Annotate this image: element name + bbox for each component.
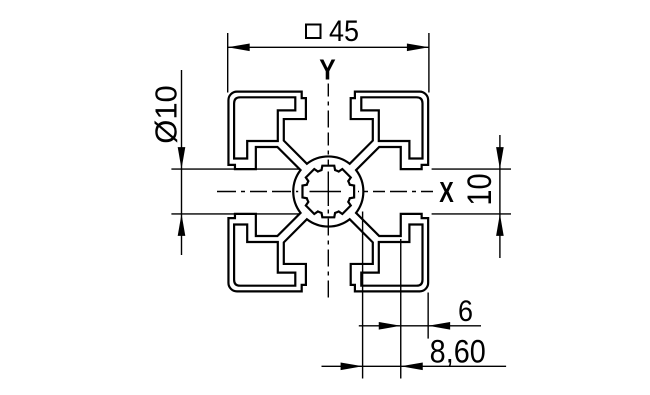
corner cavity upper-left [234, 97, 295, 158]
svg-text:Ø10: Ø10 [149, 85, 184, 144]
centerline X dashed right [358, 191, 433, 193]
centerline X dashed left [217, 191, 298, 193]
corner cavity upper-right [361, 97, 422, 158]
centerline Y dashed upper [327, 84, 329, 167]
dia10 arrow lower [178, 214, 186, 236]
svg-text:45: 45 [329, 15, 359, 49]
corner cavity lower-right [361, 225, 422, 286]
svg-text:10: 10 [460, 173, 499, 205]
dim6 extension line left [400, 239, 402, 379]
dim10 extension line upper [432, 168, 511, 170]
dim860 extension line left [362, 212, 364, 379]
dim860 dimension line [322, 365, 507, 367]
dim45 arrow right [407, 44, 429, 52]
centerline X solid center dash [310, 191, 342, 193]
dim10 arrow lower [496, 214, 504, 236]
dim6 arrow left [379, 322, 401, 330]
center bore with keyway notches [302, 166, 354, 218]
svg-text:X: X [439, 177, 454, 209]
dia10 dimension line [181, 70, 183, 255]
dim45 extension line left [227, 33, 229, 93]
svg-text:8,60: 8,60 [430, 334, 486, 370]
dim860 arrow left [341, 363, 363, 371]
svg-text:6: 6 [458, 295, 473, 329]
dim6 arrow right [428, 322, 450, 330]
dim10 dimension line [499, 135, 501, 258]
square symbol of dim45 label [306, 25, 321, 39]
dim45 arrow left [228, 44, 250, 52]
dim860 arrow right [401, 363, 423, 371]
dia10 extension line upper [171, 168, 299, 170]
centerline Y solid center dash [327, 172, 329, 207]
svg-text:Y: Y [319, 54, 335, 86]
dim45 extension line right [428, 33, 430, 93]
dia10 extension line lower [171, 213, 299, 215]
dim10 extension line lower [432, 213, 511, 215]
dim10 arrow upper [496, 147, 504, 169]
profile outer contour [228, 92, 428, 292]
corner cavity lower-left [234, 225, 295, 286]
dim6 extension line right [427, 293, 429, 339]
centerline Y dashed lower [327, 210, 329, 298]
dim45 dimension line [228, 46, 429, 48]
dia10 arrow upper [178, 147, 186, 169]
dim6 dimension line [359, 325, 481, 327]
